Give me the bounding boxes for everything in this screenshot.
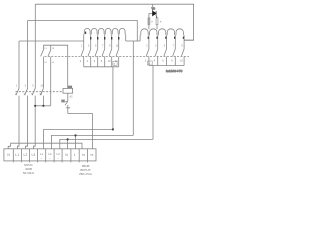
wire right bar drop bbox=[152, 66, 154, 140]
svg-text:9: 9 bbox=[181, 45, 183, 48]
contact KM2-1 bbox=[146, 49, 149, 66]
wire bus L1 drop bbox=[34, 4, 36, 88]
svg-text:T6: T6 bbox=[82, 153, 86, 157]
breaker feeder line bbox=[43, 45, 67, 88]
svg-text:3: 3 bbox=[88, 45, 90, 48]
contact K-L1 bbox=[32, 88, 35, 149]
svg-text:2BK-POA: 2BK-POA bbox=[79, 172, 92, 176]
wire T1 tap 4 bbox=[104, 34, 106, 49]
wire bus L2 bbox=[28, 21, 138, 42]
svg-text:5: 5 bbox=[32, 85, 34, 88]
wire T2 left end riser bbox=[139, 35, 141, 41]
svg-text:3: 3 bbox=[155, 45, 157, 48]
node dot H3 stub bbox=[67, 138, 69, 140]
svg-text:8: 8 bbox=[101, 60, 103, 63]
svg-text:ka6.BA3-4-TC: ka6.BA3-4-TC bbox=[166, 69, 183, 73]
diode VD feed from bus1 bbox=[152, 4, 154, 11]
contact KM2-3 bbox=[164, 49, 167, 66]
svg-text:KK: KK bbox=[62, 100, 66, 103]
svg-text:L1: L1 bbox=[15, 153, 19, 157]
wire H2 stub cell10 bbox=[75, 135, 77, 148]
svg-text:3: 3 bbox=[25, 85, 27, 88]
terminal labels bbox=[7, 152, 93, 160]
breaker QF1 pole A bbox=[41, 45, 44, 88]
svg-text:14: 14 bbox=[39, 93, 42, 96]
tap number labels T1 bbox=[85, 32, 120, 40]
contact K-L2 bbox=[25, 88, 28, 149]
svg-text:L: L bbox=[74, 153, 76, 157]
wire center drop to control bbox=[132, 41, 134, 135]
svg-text:8: 8 bbox=[171, 60, 173, 63]
wire T1 tap 5 bbox=[111, 34, 113, 49]
wire T2 tap 1 bbox=[148, 35, 150, 49]
wire T1 tap 6 bbox=[118, 34, 120, 49]
wire bus L1 top bbox=[35, 4, 193, 40]
breaker QF1 pole B bbox=[48, 45, 51, 106]
svg-text:T6: T6 bbox=[90, 153, 94, 157]
svg-text:7: 7 bbox=[102, 45, 104, 48]
contact KM1-1 bbox=[81, 49, 84, 67]
svg-text:L3: L3 bbox=[32, 153, 36, 157]
svg-text:6: 6 bbox=[162, 60, 164, 63]
wire T2 tap 2 bbox=[157, 35, 159, 49]
svg-text:7: 7 bbox=[173, 45, 175, 48]
svg-text:13: 13 bbox=[44, 48, 47, 50]
contact KM2-4 bbox=[173, 49, 176, 66]
wire H4 left jog to cell1 bbox=[8, 143, 10, 149]
contactor group KM1 contacts (left) bbox=[81, 49, 119, 67]
autotransformer winding T1 bbox=[84, 28, 125, 34]
svg-text:~: ~ bbox=[49, 157, 51, 160]
node common bar left group bbox=[84, 66, 119, 68]
contact K-aux bbox=[40, 88, 43, 106]
svg-text:14: 14 bbox=[44, 62, 47, 64]
wire bus L3 bbox=[19, 40, 84, 42]
svg-text:6: 6 bbox=[94, 60, 96, 63]
node dot H2 stub bbox=[74, 134, 76, 136]
svg-text:KM: KM bbox=[68, 86, 72, 89]
wire T2 right end bbox=[183, 35, 185, 49]
label bottom left block bbox=[23, 163, 35, 175]
wire H3 link to cell8 bbox=[60, 139, 153, 148]
svg-text:R: R bbox=[160, 22, 162, 24]
wire T1 left terminal bbox=[83, 34, 85, 49]
resistor R2 body bbox=[156, 18, 158, 25]
svg-text:5: 5 bbox=[95, 45, 97, 48]
svg-text:L2: L2 bbox=[48, 152, 52, 156]
label right group 5 bbox=[148, 61, 153, 65]
svg-text:N: N bbox=[65, 153, 68, 157]
svg-text:~: ~ bbox=[57, 157, 59, 160]
wire H2 control link bbox=[52, 135, 134, 148]
svg-text:VD: VD bbox=[152, 7, 156, 11]
svg-text:1: 1 bbox=[81, 45, 83, 48]
wire coil to terminal 12 bbox=[68, 114, 93, 149]
contactor coil KM bbox=[63, 88, 73, 93]
wire bus L3 drop bbox=[18, 41, 20, 89]
contact KM2-5 bbox=[181, 49, 184, 66]
svg-text:L3: L3 bbox=[57, 152, 61, 156]
wire T2 right end to bus1 bbox=[184, 39, 194, 41]
svg-text:5: 5 bbox=[164, 45, 166, 48]
resistor R1 lead top bbox=[149, 13, 153, 29]
contact number labels left group bbox=[80, 45, 119, 64]
node dot bar2-aux bbox=[42, 105, 44, 107]
resistor R1 body bbox=[148, 18, 150, 25]
wire bus L2 drop bbox=[27, 21, 29, 89]
svg-text:10: 10 bbox=[108, 60, 111, 63]
svg-text:2: 2 bbox=[145, 60, 147, 63]
svg-text:9: 9 bbox=[109, 45, 111, 48]
terminal strip dividers bbox=[13, 149, 87, 163]
dashed mechanical linkage upper bbox=[45, 55, 190, 57]
label box p on left bar bbox=[113, 61, 117, 65]
node junction bar under T1 right bbox=[126, 40, 140, 42]
contact KM1-2 bbox=[88, 49, 91, 67]
svg-text:~: ~ bbox=[41, 157, 43, 160]
node common bar right group bbox=[149, 65, 184, 67]
contact KM2-2 bbox=[155, 49, 158, 66]
svg-text:13: 13 bbox=[52, 48, 55, 50]
contact KM1-6 bbox=[116, 49, 119, 67]
svg-text:A2: A2 bbox=[70, 96, 74, 99]
svg-text:1: 1 bbox=[16, 85, 18, 88]
svg-text:R: R bbox=[151, 22, 153, 24]
svg-text:L2: L2 bbox=[24, 153, 28, 157]
tap number labels T2 bbox=[148, 37, 185, 39]
resistor R2 leads bbox=[156, 25, 158, 30]
dashed mechanical linkage lower bbox=[16, 91, 64, 93]
contact K-L3 bbox=[16, 88, 19, 149]
wire H3 stub cell9 bbox=[67, 139, 69, 148]
contact number labels right group bbox=[145, 45, 184, 63]
wire H_b control to cell6 bbox=[44, 129, 113, 148]
contact KM1-5 bbox=[109, 49, 112, 67]
svg-text:1: 1 bbox=[146, 45, 148, 48]
wire T1 right end bbox=[125, 34, 127, 41]
node dot bar2-L1 bbox=[34, 105, 36, 107]
breaker labels bbox=[44, 48, 55, 64]
diode VD body bbox=[153, 11, 158, 18]
wire coil bottom bbox=[67, 93, 69, 101]
wire T1 tap 3 bbox=[97, 34, 99, 49]
svg-text:L1: L1 bbox=[40, 152, 44, 156]
contact row main K contacts bbox=[16, 88, 43, 149]
terminal strip XT outline bbox=[4, 149, 96, 161]
svg-text:2: 2 bbox=[80, 60, 82, 63]
svg-text:10: 10 bbox=[180, 60, 183, 63]
svg-text:4: 4 bbox=[87, 60, 89, 63]
wire T1 tap 2 bbox=[90, 34, 92, 49]
wire T2 tap 3 bbox=[166, 35, 168, 49]
svg-text:N: N bbox=[7, 153, 10, 157]
wire bar drop left group bbox=[112, 67, 114, 130]
contact number labels main row bbox=[15, 85, 44, 97]
resistor R1 lead join bbox=[148, 13, 150, 18]
wire H4 neutral link bbox=[11, 143, 83, 149]
svg-text:50-60Hz: 50-60Hz bbox=[23, 171, 35, 175]
autotransformer winding T2 bbox=[141, 29, 184, 35]
label bottom right block bbox=[79, 164, 92, 176]
contact KM1-4 bbox=[102, 49, 105, 67]
wire T2 tap 4 bbox=[174, 35, 176, 49]
thermal contact KK bbox=[65, 101, 70, 113]
svg-text:12: 12 bbox=[115, 60, 118, 63]
node dot Hb-drop bbox=[112, 128, 114, 130]
node junction bar2 bbox=[35, 105, 51, 107]
contactor group KM2 contacts (right) bbox=[146, 49, 184, 66]
svg-text:4: 4 bbox=[154, 60, 156, 63]
svg-text:14: 14 bbox=[52, 62, 55, 64]
contact KM1-3 bbox=[95, 49, 98, 67]
